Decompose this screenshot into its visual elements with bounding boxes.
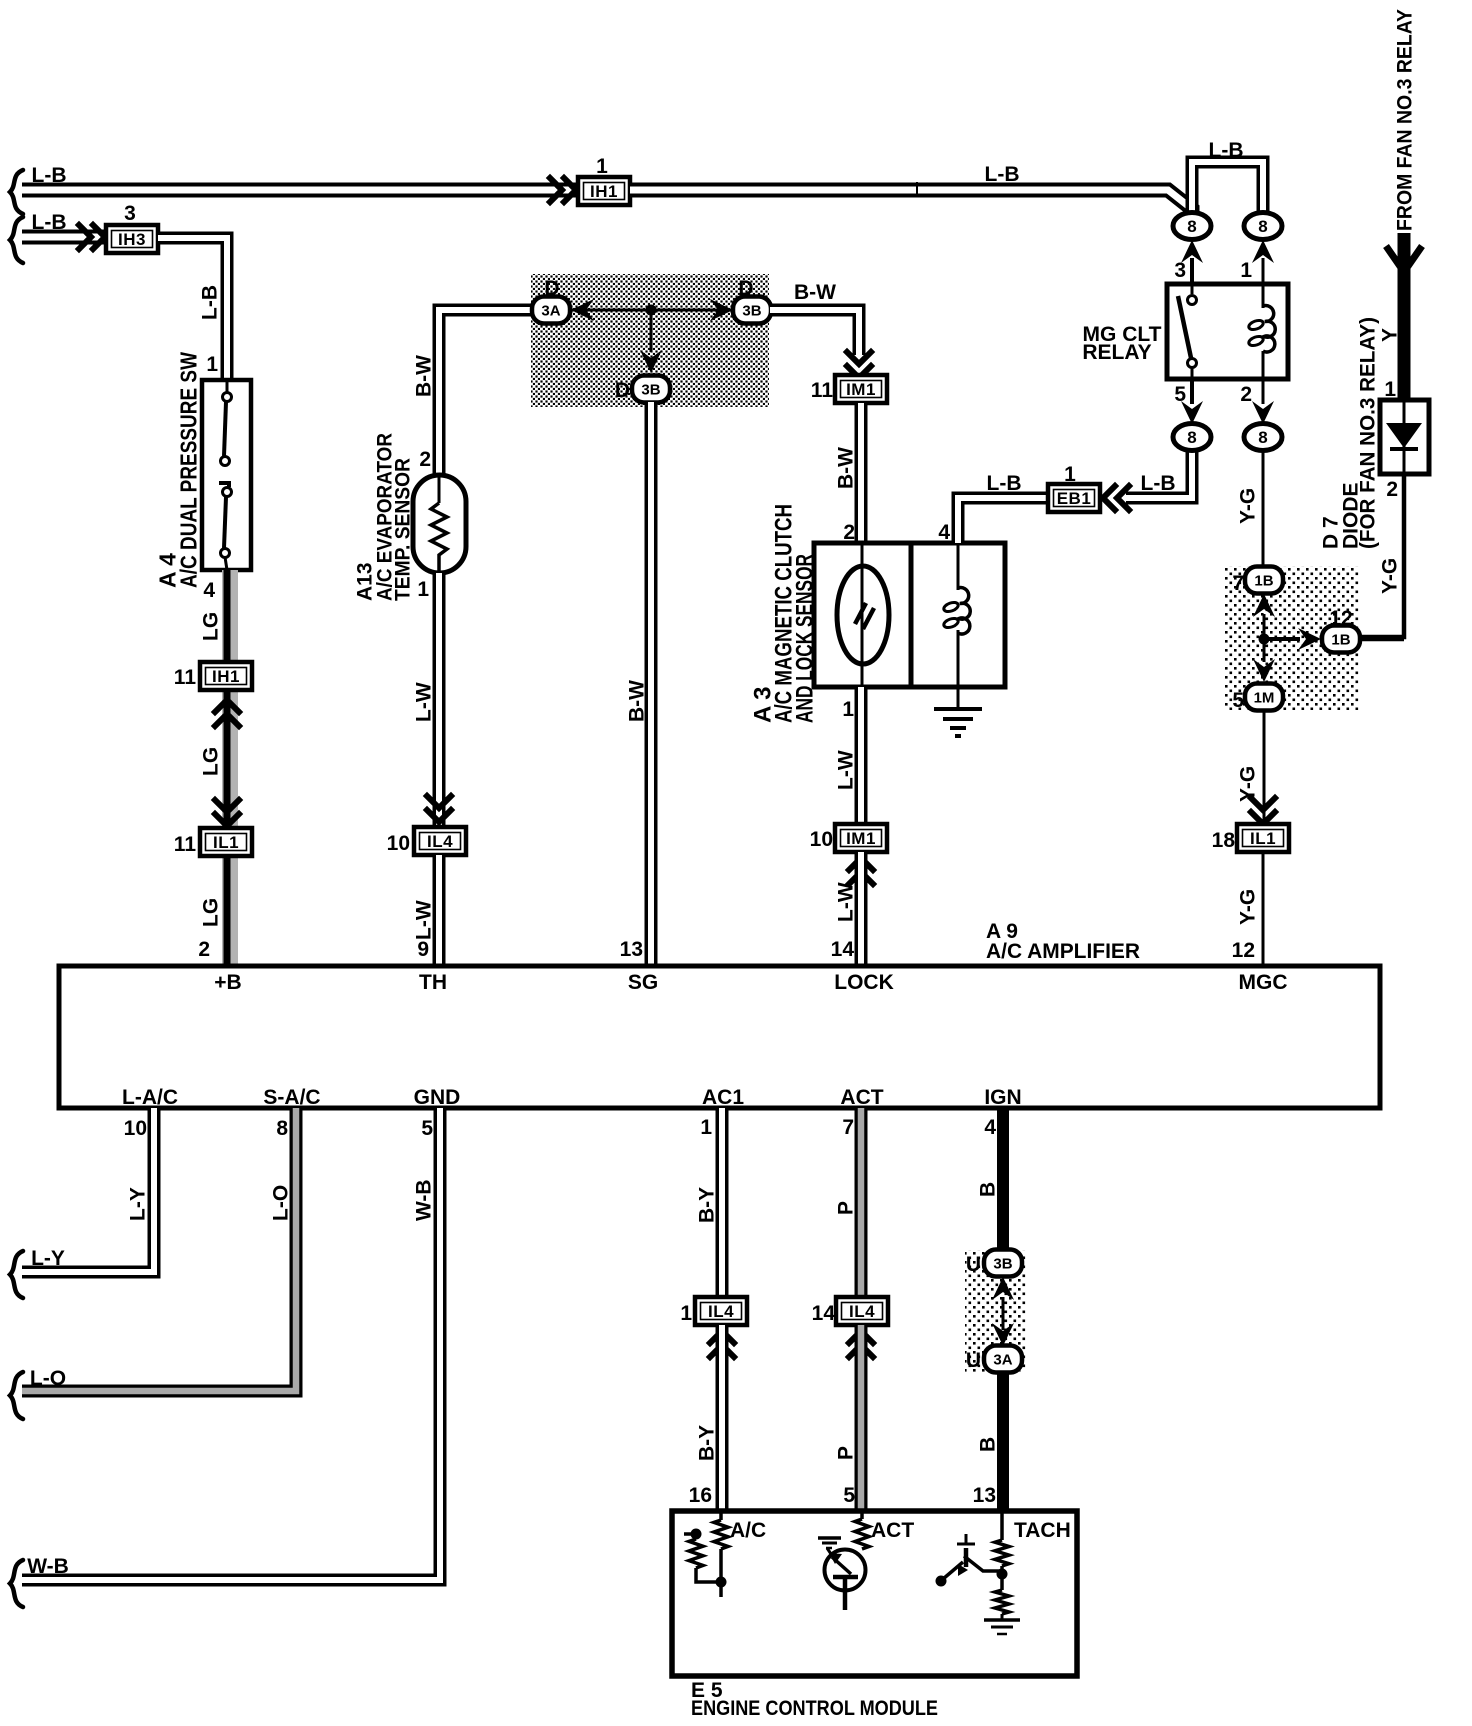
arrow down into IL1 pin18	[1251, 798, 1275, 824]
svg-text:1: 1	[680, 1302, 692, 1325]
wire L-W IL4 to amplifier TH	[433, 855, 446, 966]
wire B-W splice 3B to amplifier SG	[645, 402, 658, 966]
wire B U3A to ECM TACH	[997, 1372, 1009, 1511]
svg-text:LG: LG	[200, 747, 223, 776]
svg-text:TEMP. SENSOR: TEMP. SENSOR	[392, 458, 415, 601]
splice 3A with label D	[532, 297, 570, 324]
relay pin 5 lead	[1190, 379, 1194, 404]
svg-text:ACT: ACT	[871, 1519, 914, 1542]
svg-text:3A: 3A	[541, 303, 560, 320]
svg-text:RELAY: RELAY	[1082, 341, 1151, 364]
svg-text:10: 10	[124, 1117, 147, 1140]
arrow left into EB1	[1103, 486, 1129, 510]
component A3 A/C magnetic clutch and lock sensor box	[814, 543, 1005, 687]
svg-text:3: 3	[124, 202, 136, 225]
wire LG pressure switch to amplifier +B	[222, 570, 238, 966]
svg-text:Y-G: Y-G	[1237, 766, 1260, 802]
splice 3B with label U	[984, 1250, 1022, 1277]
svg-text:IL1: IL1	[213, 833, 239, 852]
ground below clutch coil	[957, 687, 960, 709]
svg-text:4: 4	[938, 521, 950, 544]
connector IL4 pin 1	[695, 1297, 747, 1325]
svg-text:L-Y: L-Y	[31, 1247, 65, 1270]
svg-text:IM1: IM1	[846, 829, 876, 848]
svg-text:5: 5	[1174, 383, 1186, 406]
svg-text:IH1: IH1	[212, 667, 240, 686]
svg-text:IM1: IM1	[846, 380, 876, 399]
svg-text:L-W: L-W	[835, 882, 858, 922]
arrow up into IL4 pin1	[710, 1331, 734, 1357]
arrow down on fan feed	[1386, 246, 1422, 272]
svg-text:2: 2	[419, 448, 431, 471]
wire P ACT to IL4	[855, 1108, 868, 1300]
arrow up to connector 8 (pin1)	[1252, 240, 1274, 263]
arrow down into 1M	[1253, 659, 1275, 682]
arrow up into IM1 pin10	[849, 858, 873, 884]
svg-text:3B: 3B	[993, 1256, 1012, 1273]
arrow down into U3A	[992, 1323, 1014, 1346]
connector 8 (relay pin 5 bottom)	[1173, 424, 1211, 451]
ECM A/C input circuit	[684, 1532, 696, 1536]
svg-text:L-W: L-W	[835, 750, 858, 790]
wire continuation brace (W-B)	[10, 1560, 23, 1607]
wire L-Y from L-A/C	[22, 1108, 154, 1272]
component MG CLT relay box	[1167, 284, 1288, 379]
svg-text:L-B: L-B	[985, 163, 1020, 186]
ECM TACH transistor	[964, 1548, 969, 1567]
svg-text:P: P	[835, 1446, 858, 1460]
ECM TACH circuit	[1000, 1511, 1004, 1540]
svg-text:1: 1	[1240, 259, 1252, 282]
arrow up into 1B	[1253, 594, 1275, 617]
svg-text:AND LOCK SENSOR: AND LOCK SENSOR	[792, 554, 819, 723]
connector IM1 pin 11	[835, 375, 887, 403]
svg-text:MGC: MGC	[1239, 971, 1288, 994]
wire Y-G diode to splice 1B pin12	[1359, 474, 1404, 637]
wire L-W IM1 to amplifier LOCK	[855, 852, 868, 966]
shaded junction area (1B/1M)	[1224, 566, 1359, 710]
connector IH1 pin 1	[578, 177, 630, 205]
connector IH3 pin 3	[106, 225, 158, 253]
svg-text:GND: GND	[414, 1086, 461, 1109]
svg-text:IL4: IL4	[708, 1302, 734, 1321]
wire L-B to IH1	[22, 183, 578, 198]
splice 3A with label U	[984, 1346, 1022, 1373]
svg-text:3B: 3B	[742, 303, 761, 320]
clutch coil	[957, 543, 960, 590]
svg-text:AC1: AC1	[702, 1086, 744, 1109]
svg-text:IL4: IL4	[427, 832, 453, 851]
connector IL1 pin 11 (left column)	[200, 828, 252, 856]
wire from 1B pin12 to diode	[1359, 637, 1404, 642]
ECM TACH ground	[984, 1618, 1020, 1622]
svg-text:4: 4	[203, 579, 215, 602]
arrow down into IL4	[427, 796, 451, 822]
svg-text:D: D	[738, 277, 753, 300]
svg-text:L-B: L-B	[1141, 472, 1176, 495]
svg-text:S-A/C: S-A/C	[263, 1086, 320, 1109]
wire B-Y IL4 to ECM	[716, 1325, 729, 1511]
svg-text:L-B: L-B	[987, 472, 1022, 495]
svg-text:A/C DUAL PRESSURE SW: A/C DUAL PRESSURE SW	[175, 352, 201, 588]
connector IH1 pin 11 (left column)	[200, 662, 252, 690]
component D7 diode box	[1380, 400, 1429, 474]
svg-text:L-W: L-W	[413, 682, 436, 722]
svg-text:2: 2	[1386, 478, 1398, 501]
svg-text:1M: 1M	[1254, 690, 1275, 707]
svg-text:9: 9	[417, 938, 429, 961]
svg-text:B-Y: B-Y	[696, 1187, 719, 1223]
splice 1B pin 12	[1322, 626, 1360, 653]
pressure switch contacts	[226, 380, 229, 393]
svg-text:14: 14	[831, 938, 855, 961]
connector 8 (relay pin 3 top)	[1173, 213, 1211, 240]
svg-text:1B: 1B	[1331, 632, 1350, 649]
connector IL4 pin 10 (TH column)	[414, 827, 466, 855]
wire continuation brace (top L-B)	[10, 170, 23, 214]
svg-text:ENGINE CONTROL MODULE: ENGINE CONTROL MODULE	[691, 1697, 938, 1720]
svg-text:L-W: L-W	[413, 900, 436, 940]
svg-text:EB1: EB1	[1057, 489, 1092, 508]
arrow right into 3B	[710, 299, 733, 321]
svg-text:IL1: IL1	[1250, 829, 1276, 848]
junction dot D	[646, 305, 657, 316]
junction dot (Y-G)	[1259, 634, 1270, 645]
wire L-W evaporator to IL4	[433, 573, 446, 827]
wire L-B from IH1 to MG CLT relay	[630, 190, 1192, 218]
wire L-B loop between relay pins	[1192, 162, 1263, 218]
arrow down into IM1 (pin 11)	[847, 352, 871, 378]
shaded junction area D	[531, 274, 769, 407]
svg-text:8: 8	[276, 1117, 288, 1140]
svg-text:1: 1	[1064, 463, 1076, 486]
svg-text:B-W: B-W	[835, 447, 858, 489]
svg-text:IH3: IH3	[118, 230, 146, 249]
svg-text:L-Y: L-Y	[127, 1187, 150, 1221]
wire L-W clutch to IM1 pin10	[855, 687, 868, 827]
arrow into IH1	[550, 178, 576, 202]
wire L-B to IH3	[22, 230, 107, 245]
svg-text:7: 7	[842, 1116, 854, 1139]
splice 3B (lower) with label D	[632, 376, 670, 403]
wire B IGN to splice U3B	[997, 1108, 1009, 1252]
svg-text:IL4: IL4	[849, 1302, 875, 1321]
svg-text:D: D	[544, 277, 559, 300]
svg-text:IGN: IGN	[984, 1086, 1021, 1109]
wire continuation brace (L-Y)	[10, 1251, 23, 1298]
svg-text:A/C AMPLIFIER: A/C AMPLIFIER	[986, 940, 1140, 963]
svg-text:1: 1	[842, 698, 854, 721]
component E5 engine control module box	[672, 1511, 1077, 1676]
wire continuation brace (L-O)	[10, 1372, 23, 1419]
component A4 A/C dual pressure switch box	[202, 380, 251, 570]
wire B-W from splice 3B to IM1	[770, 310, 859, 355]
svg-text:W-B: W-B	[413, 1179, 436, 1221]
arrow down to connector 8 (pin5)	[1181, 401, 1203, 424]
arrow up into IL4 pin14	[849, 1331, 873, 1357]
connector IL1 pin 18	[1237, 824, 1289, 852]
svg-text:A/C: A/C	[730, 1519, 766, 1542]
lock sensor pickup ellipse	[861, 543, 864, 687]
svg-text:12: 12	[1329, 607, 1352, 630]
svg-text:L-O: L-O	[270, 1185, 293, 1221]
svg-text:11: 11	[811, 379, 834, 402]
svg-text:1B: 1B	[1254, 573, 1273, 590]
svg-text:B-Y: B-Y	[696, 1425, 719, 1461]
svg-text:Y-G: Y-G	[1237, 889, 1260, 925]
branch wire to 1B pin 12	[1264, 637, 1300, 641]
svg-text:11: 11	[174, 833, 197, 856]
svg-text:10: 10	[387, 832, 410, 855]
wire L-O from S-A/C	[22, 1108, 296, 1391]
svg-text:1: 1	[206, 353, 218, 376]
shaded junction area (U 3B/3A)	[965, 1250, 1026, 1372]
svg-text:10: 10	[810, 828, 833, 851]
arrow up to connector 8 (pin3)	[1181, 240, 1203, 263]
svg-text:5: 5	[1232, 689, 1244, 712]
svg-text:LG: LG	[200, 612, 223, 641]
svg-text:LOCK: LOCK	[834, 971, 894, 994]
arrow down into IL1	[215, 800, 239, 826]
junction branch down to 3B	[650, 315, 653, 352]
splice 1M pin 5	[1245, 684, 1283, 711]
relay pin 2 lead	[1262, 379, 1265, 404]
svg-text:B: B	[977, 1182, 1000, 1197]
svg-text:11: 11	[174, 666, 197, 689]
wire Y-G relay pin2 to splice 1B	[1262, 450, 1265, 567]
connector 8 (relay pin 2 bottom)	[1244, 424, 1282, 451]
svg-text:+B: +B	[214, 971, 241, 994]
svg-text:B-W: B-W	[626, 680, 649, 722]
arrow left into 3A	[571, 299, 594, 321]
svg-text:B-W: B-W	[794, 281, 836, 304]
svg-text:L-B: L-B	[199, 285, 222, 320]
relay switch contacts	[1191, 284, 1194, 294]
wire P IL4 to ECM	[855, 1325, 868, 1511]
svg-text:14: 14	[812, 1302, 836, 1325]
svg-text:SG: SG	[628, 971, 658, 994]
splice 1B pin 7	[1245, 567, 1283, 594]
arrow down into lower 3B	[640, 350, 662, 373]
wire Y thick feed from fan relay	[1398, 233, 1411, 398]
svg-text:TH: TH	[419, 971, 447, 994]
svg-text:4: 4	[984, 1116, 996, 1139]
svg-text:8: 8	[1258, 217, 1267, 236]
svg-text:L-B: L-B	[1209, 139, 1244, 162]
junction wire between 3A and 3B	[569, 309, 733, 312]
arrow down to connector 8 (pin2)	[1252, 401, 1274, 424]
svg-text:ACT: ACT	[840, 1086, 883, 1109]
connector IL4 pin 14	[836, 1297, 888, 1325]
arrow right into 1B pin12	[1298, 628, 1321, 650]
svg-text:TACH: TACH	[1014, 1519, 1071, 1542]
svg-text:1: 1	[700, 1116, 712, 1139]
wire B-Y AC1 to IL4	[716, 1108, 729, 1300]
wire Y-G 1M to IL1	[1263, 710, 1266, 825]
svg-text:B-W: B-W	[413, 355, 436, 397]
component A9 A/C amplifier box	[59, 966, 1380, 1108]
svg-text:2: 2	[1240, 383, 1252, 406]
connector EB1 pin 1	[1048, 484, 1100, 512]
svg-text:12: 12	[1232, 939, 1255, 962]
svg-text:Y-G: Y-G	[1379, 558, 1402, 594]
svg-text:5: 5	[421, 1117, 433, 1140]
svg-text:3A: 3A	[993, 1352, 1012, 1369]
svg-text:2: 2	[198, 938, 210, 961]
svg-text:13: 13	[973, 1484, 996, 1507]
svg-text:13: 13	[620, 938, 643, 961]
svg-text:16: 16	[689, 1484, 712, 1507]
connector 8 (relay pin 1 top)	[1244, 213, 1282, 240]
component A13 A/C evaporator temp sensor	[413, 475, 466, 573]
svg-text:3: 3	[1174, 259, 1186, 282]
svg-text:L-A/C: L-A/C	[122, 1086, 178, 1109]
wire continuation brace (second L-B)	[10, 217, 23, 263]
svg-text:3B: 3B	[641, 382, 660, 399]
svg-text:L-O: L-O	[30, 1367, 66, 1390]
wire B-W IM1 to clutch pin 2	[855, 403, 868, 543]
wire L-B EB1 to relay pin5 connector	[1126, 450, 1192, 498]
wire B-W from junction 3A to evaporator sensor	[439, 310, 534, 475]
svg-text:(FOR FAN NO.3 RELAY): (FOR FAN NO.3 RELAY)	[1357, 317, 1380, 549]
svg-text:8: 8	[1187, 428, 1196, 447]
svg-text:W-B: W-B	[27, 1555, 69, 1578]
svg-text:1: 1	[417, 578, 429, 601]
svg-text:7: 7	[1232, 572, 1244, 595]
wire W-B from GND	[22, 1108, 440, 1580]
svg-text:LG: LG	[200, 898, 223, 927]
svg-text:Y: Y	[1379, 328, 1402, 342]
svg-text:1: 1	[596, 155, 608, 178]
svg-text:8: 8	[1258, 428, 1267, 447]
arrow up into U3B	[992, 1277, 1014, 1300]
svg-text:P: P	[835, 1201, 858, 1215]
svg-text:18: 18	[1212, 829, 1236, 852]
svg-text:5: 5	[843, 1484, 855, 1507]
relay coil	[1262, 284, 1265, 308]
svg-text:U: U	[966, 1349, 981, 1372]
svg-text:B: B	[977, 1437, 1000, 1452]
connector IM1 pin 10	[835, 824, 887, 852]
svg-text:FROM FAN NO.3 RELAY: FROM FAN NO.3 RELAY	[1394, 9, 1417, 231]
svg-text:8: 8	[1187, 217, 1196, 236]
arrow up into IH1	[215, 700, 239, 726]
svg-text:U: U	[966, 1253, 981, 1276]
crossing tick on L-B wire	[916, 182, 918, 197]
ECM ACT driver transistor	[860, 1511, 864, 1519]
wire L-B clutch pin4 to EB1	[958, 498, 1049, 543]
svg-text:Y-G: Y-G	[1237, 488, 1260, 524]
svg-text:IH1: IH1	[590, 182, 618, 201]
wire Y-G IL1 to amplifier MGC	[1262, 852, 1265, 966]
svg-text:D: D	[615, 379, 630, 402]
wire L-B from IH3 down to pressure switch	[158, 238, 227, 380]
arrow into IH3	[79, 225, 105, 249]
splice 3B (right) with label D	[733, 297, 771, 324]
